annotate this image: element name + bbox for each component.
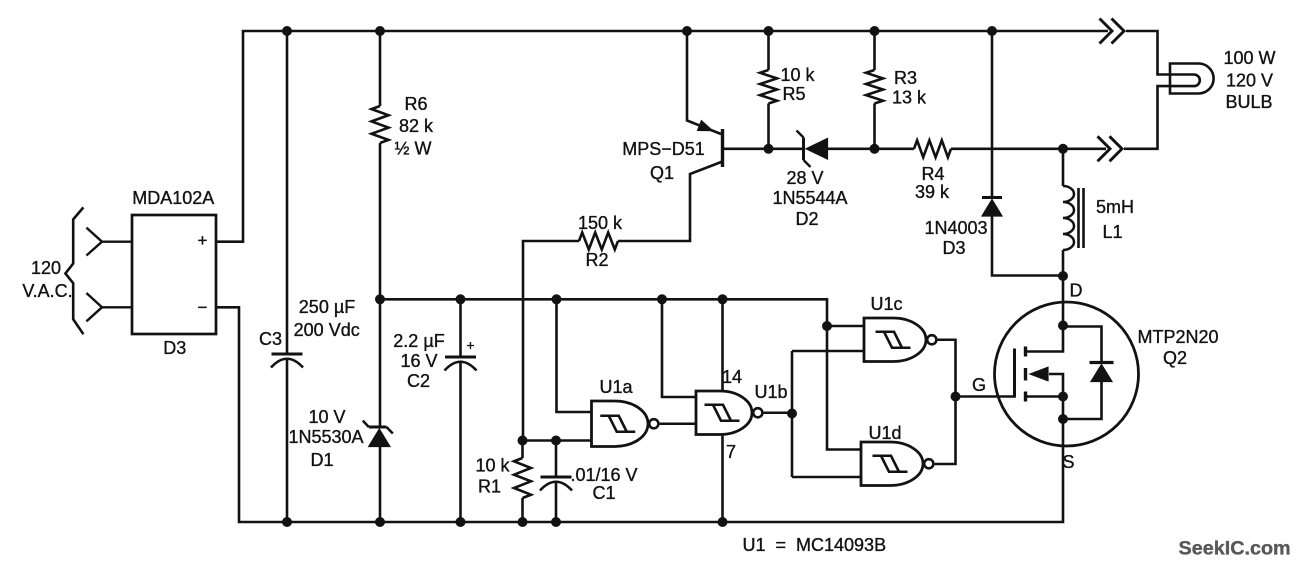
svg-text:R4: R4 [921,164,944,184]
svg-text:5mH: 5mH [1096,197,1134,217]
svg-text:1N5544A: 1N5544A [772,188,847,208]
svg-text:10 k: 10 k [780,65,815,85]
svg-text:D3: D3 [163,338,186,358]
svg-text:R2: R2 [585,250,608,270]
svg-text:L1: L1 [1102,222,1122,242]
svg-text:2.2 µF: 2.2 µF [393,331,444,351]
svg-text:S: S [1062,452,1074,472]
svg-text:14: 14 [722,367,742,387]
svg-text:.01/16 V: .01/16 V [570,465,637,485]
svg-text:U1 = MC14093B: U1 = MC14093B [743,535,887,555]
svg-text:U1d: U1d [868,423,901,443]
svg-text:28 V: 28 V [786,168,823,188]
svg-text:U1a: U1a [599,377,633,397]
svg-text:D2: D2 [795,209,818,229]
svg-text:150 k: 150 k [578,213,623,233]
svg-text:7: 7 [726,442,736,462]
svg-text:250 µF: 250 µF [299,297,355,317]
svg-text:100 W: 100 W [1223,48,1275,68]
svg-text:R3: R3 [894,68,917,88]
svg-text:10 V: 10 V [308,407,345,427]
svg-text:1N4003: 1N4003 [924,218,987,238]
svg-text:U1b: U1b [754,382,787,402]
svg-text:120: 120 [31,258,61,278]
svg-text:Q1: Q1 [650,163,674,183]
svg-text:SeekIC.com: SeekIC.com [1179,538,1291,560]
svg-text:BULB: BULB [1225,92,1272,112]
svg-text:120 V: 120 V [1226,71,1273,91]
svg-text:MPS−D51: MPS−D51 [622,139,705,159]
svg-text:½ W: ½ W [394,139,431,159]
svg-text:MTP2N20: MTP2N20 [1137,327,1218,347]
svg-text:13 k: 13 k [892,88,927,108]
svg-text:82 k: 82 k [399,116,434,136]
svg-text:G: G [972,375,986,395]
svg-text:−: − [198,298,208,317]
svg-text:C2: C2 [407,371,430,391]
svg-text:R5: R5 [782,84,805,104]
svg-text:D: D [1070,281,1083,301]
svg-text:+: + [466,337,474,353]
svg-text:200 Vdc: 200 Vdc [294,320,360,340]
svg-text:39 k: 39 k [915,182,950,202]
svg-text:10 k: 10 k [475,456,510,476]
svg-text:Q2: Q2 [1163,348,1187,368]
svg-text:MDA102A: MDA102A [132,188,214,208]
svg-text:D3: D3 [942,238,965,258]
svg-text:+: + [198,231,208,250]
svg-text:V.A.C.: V.A.C. [22,281,72,301]
svg-text:C3: C3 [259,329,282,349]
svg-text:U1c: U1c [870,294,902,314]
svg-text:1N5530A: 1N5530A [288,427,363,447]
svg-text:D1: D1 [310,450,333,470]
svg-text:16 V: 16 V [400,351,437,371]
svg-text:R1: R1 [478,477,501,497]
svg-text:R6: R6 [404,94,427,114]
svg-text:C1: C1 [592,483,615,503]
